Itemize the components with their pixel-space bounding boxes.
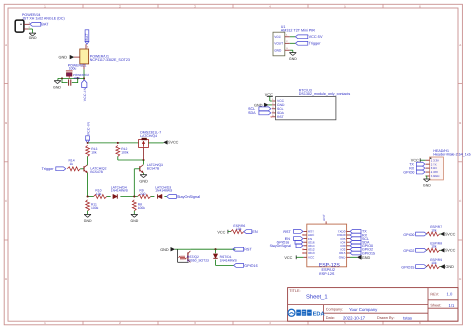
net label SCL — [350, 237, 369, 241]
net label TX — [409, 162, 425, 166]
capacitor C1 — [66, 71, 89, 80]
svg-text:GND: GND — [29, 36, 37, 40]
title block — [288, 288, 458, 322]
junction — [83, 77, 85, 79]
resistor R10 — [94, 189, 107, 199]
junction — [61, 77, 63, 79]
wire — [290, 50, 293, 52]
wire — [57, 78, 59, 80]
svg-text:VCC-5V: VCC-5V — [309, 35, 323, 39]
svg-text:GPIO2: GPIO2 — [403, 249, 414, 253]
svg-text:ESP-12S: ESP-12S — [319, 272, 335, 276]
wire — [143, 160, 145, 165]
wire top rail — [88, 142, 139, 144]
svg-text:100k: 100k — [121, 151, 129, 155]
svg-text:10k: 10k — [431, 261, 437, 265]
wire — [440, 233, 441, 235]
wire — [175, 248, 191, 250]
wire — [87, 156, 89, 164]
svg-text:100u: 100u — [69, 66, 77, 70]
power flag VCC — [217, 230, 231, 235]
net label GPIO16 — [277, 240, 303, 244]
net label BAT vertical — [85, 30, 89, 44]
svg-text:100k: 100k — [91, 206, 99, 210]
svg-text:GPIO15: GPIO15 — [401, 266, 414, 270]
wire — [80, 168, 84, 170]
wire — [143, 173, 145, 175]
wire — [425, 233, 428, 235]
svg-text:VCC: VCC — [274, 35, 281, 39]
ground flag — [441, 265, 455, 270]
svg-text:Header-Male-2.54_1x5: Header-Male-2.54_1x5 — [433, 152, 470, 156]
svg-text:1.0: 1.0 — [447, 292, 453, 297]
wire — [290, 36, 296, 38]
wire — [83, 69, 85, 80]
svg-text:5VCC: 5VCC — [445, 249, 455, 253]
svg-text:Trigger: Trigger — [309, 42, 322, 46]
svg-text:GND: GND — [53, 86, 61, 90]
header H1 — [426, 157, 444, 180]
svg-text:GPIO15: GPIO15 — [362, 251, 375, 255]
svg-text:LATCH/Q4: LATCH/Q4 — [140, 134, 157, 138]
transistor Q1 — [178, 249, 210, 262]
power flag 5VCC — [441, 232, 456, 236]
gate wire — [143, 148, 145, 161]
junction — [214, 248, 216, 250]
svg-text:GND: GND — [84, 219, 92, 223]
net label VCC-IN vertical top — [86, 121, 91, 142]
ground flag — [254, 103, 272, 108]
svg-text:Drawn By:: Drawn By: — [377, 316, 395, 320]
svg-text:ANT: ANT — [322, 214, 326, 221]
regulator U1 — [80, 49, 130, 64]
wire — [190, 248, 235, 250]
resistor R14 — [67, 158, 80, 171]
pin 1 of J4 — [24, 21, 31, 24]
pin 3 of U1 — [285, 47, 290, 50]
net label RX — [350, 233, 368, 237]
svg-text:AM312 T2T Mini PIR: AM312 T2T Mini PIR — [281, 29, 315, 33]
svg-text:StayOnSignal: StayOnSignal — [270, 244, 292, 248]
svg-text:RST: RST — [277, 115, 284, 119]
net label Trigger — [295, 41, 321, 45]
diode D1 — [213, 254, 237, 263]
svg-text:GND: GND — [289, 57, 297, 61]
net label GPIO0 — [350, 244, 373, 248]
pin 5 end — [271, 116, 272, 117]
pin end — [302, 249, 303, 250]
wire — [426, 176, 427, 179]
svg-text:GND: GND — [445, 265, 454, 269]
wire — [290, 42, 296, 44]
svg-text:GND: GND — [139, 179, 148, 183]
ground — [29, 33, 37, 40]
ESP labels below — [319, 268, 335, 276]
diode D4 — [111, 185, 129, 198]
svg-text:Sheet_1: Sheet_1 — [306, 293, 328, 300]
resistor ESP/R7 — [427, 225, 443, 236]
svg-text:JST XH 1x02 ANGLE (DC): JST XH 1x02 ANGLE (DC) — [22, 17, 65, 21]
pin end — [302, 252, 303, 253]
pin 3 of U1 — [86, 44, 89, 49]
svg-text:5VCC: 5VCC — [168, 140, 178, 144]
resistor ESP/R8 — [427, 242, 443, 253]
svg-text:NCP1117-3302E_SOT23: NCP1117-3302E_SOT23 — [90, 58, 130, 62]
net label GPIO0 — [403, 232, 426, 237]
wire — [216, 260, 234, 266]
power flag VCC — [411, 158, 426, 162]
svg-text:GPIO0: GPIO0 — [403, 233, 414, 237]
wire — [134, 169, 140, 197]
RTC pins 1-5 — [272, 98, 276, 117]
wire — [87, 165, 89, 197]
diode D3 — [155, 185, 173, 198]
pin 2 of J4 — [24, 26, 31, 29]
capacitor C2 — [69, 79, 71, 85]
svg-text:StayOnSignal: StayOnSignal — [177, 195, 200, 199]
svg-text:GPIO0: GPIO0 — [403, 170, 414, 174]
svg-text:GND: GND — [131, 219, 139, 223]
power flag 5VCC — [441, 248, 456, 252]
svg-text:EDA: EDA — [313, 311, 325, 317]
mosfet Q4 — [139, 138, 164, 148]
svg-text:A: A — [459, 43, 461, 47]
svg-text:SDA: SDA — [248, 111, 256, 115]
resistor ESP/R9 — [427, 258, 443, 269]
svg-text:B: B — [5, 121, 7, 125]
svg-text:GND: GND — [274, 49, 282, 53]
ground flag at U1 — [59, 55, 80, 59]
net label VCC-5V — [295, 35, 323, 39]
resistor R12 — [116, 145, 129, 156]
svg-text:1k: 1k — [70, 162, 74, 166]
net label StayOnSignal — [270, 244, 303, 248]
ground — [423, 179, 431, 188]
junction — [87, 195, 89, 197]
wire — [440, 266, 441, 268]
net label GPIO2 — [350, 248, 373, 252]
svg-text:VCC: VCC — [217, 230, 225, 234]
svg-text:EN: EN — [252, 230, 258, 234]
wire — [118, 156, 144, 160]
junction — [133, 195, 135, 197]
transistor Q3 — [140, 163, 163, 173]
svg-text:RST: RST — [283, 230, 291, 234]
wire bottom rail — [88, 196, 167, 198]
net label VCC-IN vertical — [82, 80, 88, 101]
svg-text:1/1: 1/1 — [449, 303, 455, 308]
svg-text:1N4148WS: 1N4148WS — [155, 189, 173, 193]
PIR module U1 — [273, 32, 285, 56]
svg-text:220: 220 — [140, 192, 146, 196]
wire — [133, 211, 135, 214]
net label StayOnSignal — [167, 195, 201, 199]
svg-text:GND: GND — [362, 256, 371, 260]
net label BAT — [30, 22, 49, 26]
mosfet Q4 labels — [140, 131, 161, 138]
ground — [84, 214, 92, 223]
ESP antenna pin — [322, 214, 326, 224]
svg-text:100n: 100n — [73, 76, 80, 80]
svg-text:Trigger: Trigger — [42, 167, 55, 171]
junction — [142, 159, 144, 161]
svg-text:VCC-IN: VCC-IN — [83, 87, 87, 101]
resistor R11 — [86, 200, 99, 211]
net label GPIO2 — [403, 248, 426, 253]
net label EN — [285, 237, 303, 241]
junction — [117, 142, 119, 144]
svg-text:1N4148WS: 1N4148WS — [111, 189, 129, 193]
svg-text:GND: GND — [160, 248, 169, 252]
svg-text:Company:: Company: — [326, 308, 343, 312]
net label EN — [244, 230, 258, 234]
svg-text:GND: GND — [423, 184, 431, 188]
svg-text:tstas: tstas — [403, 315, 412, 320]
pin 2 of U1 — [81, 64, 84, 69]
capacitor C1 labels — [68, 63, 87, 70]
svg-text:10k: 10k — [431, 228, 437, 232]
net label GPIO0 — [403, 170, 425, 174]
svg-text:S8050_SOT23: S8050_SOT23 — [187, 259, 209, 263]
svg-text:DS1302_module_only_contacts: DS1302_module_only_contacts — [299, 92, 351, 96]
ground — [289, 53, 297, 61]
resistor R8 — [132, 200, 145, 211]
power flag VCC — [265, 93, 273, 101]
transistor Q2 — [84, 165, 107, 174]
svg-text:10k: 10k — [91, 151, 97, 155]
svg-text:B: B — [459, 121, 461, 125]
svg-text:Sheet:: Sheet: — [430, 304, 441, 308]
wire — [425, 266, 428, 268]
resistor R6 — [231, 224, 246, 234]
header labels — [433, 149, 470, 157]
svg-text:Your Company: Your Company — [349, 307, 378, 312]
resistor R9 — [138, 189, 151, 199]
pin end — [302, 234, 303, 235]
svg-text:5 GND: 5 GND — [431, 174, 440, 178]
svg-text:RST: RST — [244, 248, 252, 252]
wire — [62, 78, 68, 82]
net label TX — [350, 230, 367, 234]
net label RX — [409, 166, 425, 170]
ESP-12S module U2 — [303, 224, 350, 268]
junction — [87, 142, 89, 144]
wire — [72, 78, 78, 82]
svg-text:5VCC: 5VCC — [445, 232, 455, 236]
RTC labels — [299, 88, 351, 96]
wire — [350, 256, 357, 258]
pin 1 of U1 — [285, 34, 290, 37]
ground — [131, 214, 139, 223]
svg-text:GND: GND — [59, 56, 68, 60]
svg-text:10k: 10k — [96, 192, 102, 196]
svg-text:BC547B: BC547B — [90, 170, 103, 174]
connector J4 labels — [22, 13, 65, 20]
svg-text:VOUT: VOUT — [274, 42, 283, 46]
svg-text:BAT: BAT — [41, 23, 49, 27]
svg-text:GND: GND — [339, 256, 347, 260]
wire — [87, 211, 89, 214]
svg-text:2022-10-17: 2022-10-17 — [343, 315, 366, 320]
net label SDA — [248, 111, 271, 115]
RTC module — [276, 97, 336, 120]
connector J4 — [15, 20, 24, 32]
svg-text:REV:: REV: — [430, 292, 439, 296]
pin 2 of U1 — [285, 40, 290, 43]
svg-text:10k: 10k — [236, 227, 242, 231]
svg-text:Date:: Date: — [326, 316, 335, 320]
net label GPIO15 — [350, 251, 375, 255]
power flag 5VCC — [164, 140, 179, 144]
net label RST — [233, 247, 253, 251]
svg-text:A: A — [5, 43, 7, 47]
net label SDA — [350, 240, 370, 244]
wire — [215, 249, 217, 253]
ground flag — [160, 247, 175, 252]
svg-text:TITLE:: TITLE: — [289, 289, 300, 293]
resistor R13 — [86, 145, 98, 156]
svg-text:1N4148WS: 1N4148WS — [220, 258, 238, 262]
svg-text:GPIO16: GPIO16 — [244, 264, 257, 268]
svg-text:VCC-IN: VCC-IN — [86, 121, 90, 135]
net label GPIO15 — [401, 265, 426, 270]
PIR U1 labels — [281, 25, 315, 33]
svg-text:VCC: VCC — [308, 256, 315, 260]
wire — [29, 29, 33, 33]
power flag VCC — [284, 255, 303, 260]
net label Trigger — [42, 167, 66, 171]
svg-text:VCC: VCC — [284, 256, 292, 260]
net label RST — [283, 230, 303, 234]
net label GPIO16 — [234, 264, 258, 268]
net label SCL — [248, 107, 271, 111]
svg-text:BAT: BAT — [85, 33, 89, 40]
svg-text:100k: 100k — [138, 206, 146, 210]
ground — [139, 175, 148, 184]
ground — [53, 81, 61, 90]
wire — [425, 249, 428, 251]
svg-text:BC547B: BC547B — [147, 166, 160, 170]
junction — [77, 77, 79, 79]
ground flag — [357, 255, 370, 260]
wire — [440, 249, 441, 251]
svg-text:10k: 10k — [431, 245, 437, 249]
wire cap rail — [58, 77, 84, 79]
